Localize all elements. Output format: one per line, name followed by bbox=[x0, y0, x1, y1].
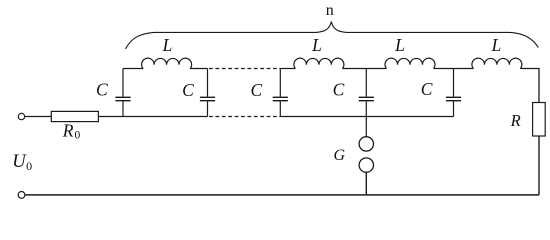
capacitor C1 bbox=[115, 69, 130, 117]
svg-text:R: R bbox=[510, 111, 521, 130]
svg-text:C: C bbox=[182, 80, 194, 100]
svg-text:L: L bbox=[162, 35, 173, 55]
svg-text:C: C bbox=[96, 79, 108, 99]
wire: mid rail node3 to node5 bbox=[280, 116, 453, 118]
svg-text:G: G bbox=[334, 147, 346, 164]
wire: dashed mid-rail continuation bbox=[209, 116, 280, 118]
input terminal (bottom) bbox=[18, 192, 25, 199]
svg-text:R0: R0 bbox=[62, 121, 81, 142]
input terminal (top) bbox=[18, 113, 24, 119]
inductor L1 bbox=[142, 58, 192, 68]
svg-text:U0: U0 bbox=[12, 152, 32, 173]
svg-text:L: L bbox=[394, 35, 405, 55]
wire: top rail L2 to L3 through node 4 bbox=[342, 68, 386, 70]
wire: node4 down to jack bbox=[365, 117, 367, 137]
svg-text:L: L bbox=[311, 35, 322, 55]
jack terminal G (lower) bbox=[359, 158, 373, 172]
resistor R0 bbox=[51, 111, 98, 121]
svg-text:C: C bbox=[250, 80, 262, 100]
brace n over ladder bbox=[126, 22, 539, 50]
inductor L4 bbox=[472, 58, 522, 68]
svg-text:n: n bbox=[326, 2, 334, 19]
svg-text:L: L bbox=[491, 35, 502, 55]
wire: R to bottom rail bbox=[538, 136, 540, 195]
jack terminal G (upper) bbox=[359, 137, 373, 151]
svg-text:C: C bbox=[333, 79, 345, 99]
wire: top rail cap3 to L2 bbox=[280, 68, 295, 70]
wire: top rail L3 to L4 through node 5 bbox=[434, 68, 474, 70]
resistor R bbox=[533, 103, 546, 137]
svg-text:C: C bbox=[421, 79, 433, 99]
wire: dashed top-rail continuation bbox=[209, 68, 280, 70]
capacitor C4 bbox=[359, 69, 374, 117]
wire: top rail L1 to cap2 bbox=[190, 68, 207, 70]
wire: L4 to right corner down to R bbox=[520, 69, 539, 103]
wire: top rail cap1 to L1 bbox=[123, 68, 143, 70]
wire: jack to bottom rail bbox=[365, 172, 367, 195]
wire: top terminal to R0 bbox=[25, 116, 51, 118]
inductor L3 bbox=[385, 58, 435, 68]
wire: bottom rail bbox=[25, 194, 539, 196]
inductor L2 bbox=[294, 58, 344, 68]
wire: mid rail R0 to node3 bbox=[98, 116, 207, 118]
capacitor C3 bbox=[273, 69, 288, 117]
capacitor C5 bbox=[446, 69, 461, 117]
capacitor C2 bbox=[200, 69, 215, 117]
